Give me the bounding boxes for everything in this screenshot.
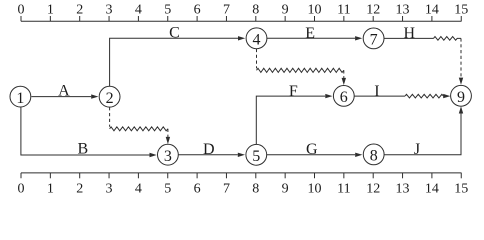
activity B path 1-3 <box>21 107 157 157</box>
svg-text:9: 9 <box>457 89 465 106</box>
svg-text:H: H <box>404 25 416 42</box>
svg-text:9: 9 <box>282 3 289 18</box>
activity E arrow 4-7 <box>267 36 362 40</box>
svg-text:11: 11 <box>337 3 350 18</box>
node 4 <box>246 28 267 49</box>
node 1 <box>10 86 31 107</box>
svg-text:4: 4 <box>135 3 142 18</box>
svg-text:I: I <box>374 83 379 100</box>
svg-text:5: 5 <box>164 3 171 18</box>
svg-text:E: E <box>305 25 315 42</box>
svg-text:3: 3 <box>106 3 113 18</box>
node 8 <box>363 144 384 165</box>
svg-text:0: 0 <box>18 3 25 18</box>
svg-text:G: G <box>306 141 318 158</box>
svg-text:1: 1 <box>16 90 24 107</box>
svg-text:15: 15 <box>454 181 468 196</box>
activity J path 8-9 <box>384 106 463 155</box>
svg-text:11: 11 <box>337 181 350 196</box>
svg-text:3: 3 <box>106 181 113 196</box>
svg-text:14: 14 <box>425 3 439 18</box>
svg-text:7: 7 <box>223 181 230 196</box>
svg-text:B: B <box>77 140 88 157</box>
svg-text:13: 13 <box>396 3 410 18</box>
svg-text:1: 1 <box>47 3 54 18</box>
activity C path 2-4 <box>110 36 246 86</box>
svg-text:6: 6 <box>340 89 348 106</box>
svg-text:8: 8 <box>370 148 378 165</box>
top timescale ruler <box>21 16 462 21</box>
bottom ruler numbers 0-15 <box>18 181 469 196</box>
svg-text:8: 8 <box>252 3 259 18</box>
node 7 <box>363 28 384 49</box>
svg-text:5: 5 <box>252 148 260 165</box>
node 6 <box>333 86 354 107</box>
svg-text:13: 13 <box>396 181 410 196</box>
svg-text:9: 9 <box>282 181 289 196</box>
dummy 4-6 dashed drop, float squiggle, dashed arrow <box>257 49 347 85</box>
svg-text:2: 2 <box>76 181 83 196</box>
svg-text:1: 1 <box>47 181 54 196</box>
svg-text:F: F <box>289 83 298 100</box>
svg-text:8: 8 <box>252 181 259 196</box>
svg-text:12: 12 <box>366 181 380 196</box>
svg-text:2: 2 <box>76 3 83 18</box>
svg-text:6: 6 <box>194 3 201 18</box>
activity G arrow 5-8 <box>267 153 363 157</box>
svg-text:14: 14 <box>425 181 439 196</box>
svg-text:4: 4 <box>253 32 261 49</box>
svg-text:C: C <box>169 25 180 42</box>
svg-text:7: 7 <box>223 3 230 18</box>
node 9 <box>451 85 472 106</box>
activity F path 5-6 <box>256 94 332 144</box>
svg-text:5: 5 <box>164 181 171 196</box>
svg-text:10: 10 <box>308 181 322 196</box>
svg-text:0: 0 <box>18 181 25 196</box>
activity D arrow 3-5 <box>178 153 245 157</box>
activity H path 7-9 with float squiggle and dashed drop <box>384 37 463 85</box>
svg-text:3: 3 <box>164 148 172 165</box>
activity A arrow 1-2 <box>31 94 98 98</box>
bottom timescale ruler <box>21 173 462 178</box>
node 2 <box>99 86 120 107</box>
svg-text:6: 6 <box>194 181 201 196</box>
svg-text:4: 4 <box>135 181 142 196</box>
dummy 2-3 dashed drop, float squiggle, dashed arrow <box>110 107 171 144</box>
svg-text:2: 2 <box>106 90 114 107</box>
node numerals <box>16 32 465 166</box>
svg-text:10: 10 <box>308 3 322 18</box>
svg-text:J: J <box>414 141 420 158</box>
svg-text:15: 15 <box>454 3 468 18</box>
svg-text:7: 7 <box>370 32 378 49</box>
svg-text:12: 12 <box>366 3 380 18</box>
node 5 <box>246 144 267 165</box>
node 3 <box>158 144 179 165</box>
top ruler numbers 0-15 <box>18 3 469 18</box>
activity I arrow 6-9 with float squiggle <box>354 94 450 98</box>
svg-text:D: D <box>203 141 215 158</box>
svg-text:A: A <box>58 83 70 100</box>
activity labels <box>58 25 420 158</box>
